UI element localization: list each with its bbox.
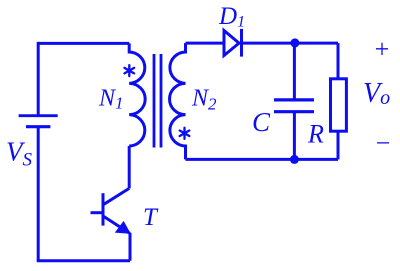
wire left vertical upper — [37, 42, 40, 116]
svg-text:VS: VS — [6, 137, 33, 171]
wire bottom horizontal — [37, 259, 130, 262]
wire left vertical lower — [37, 127, 40, 261]
transistor T base lead — [91, 211, 104, 214]
svg-text:−: − — [374, 129, 392, 158]
transistor T base bar — [102, 193, 105, 225]
svg-text:Vo: Vo — [363, 78, 390, 109]
junction node top — [290, 38, 299, 47]
winding N1 primary — [129, 43, 145, 146]
svg-text:C: C — [252, 107, 271, 137]
svg-text:+: + — [373, 35, 391, 64]
battery VS short plate — [26, 125, 50, 128]
transistor T collector diagonal — [103, 188, 129, 204]
wire collector riser — [128, 146, 131, 188]
transformer core — [154, 54, 161, 148]
resistor R body — [331, 79, 347, 131]
wire bottom rail — [186, 158, 339, 161]
svg-text:D1: D1 — [218, 3, 245, 31]
junction node bottom — [290, 155, 299, 164]
battery VS long plate — [19, 114, 58, 117]
transistor T emitter diagonal — [104, 217, 130, 234]
wire capacitor riser — [293, 43, 296, 100]
transistor T emitter arrow — [115, 221, 131, 234]
polarity dot (asterisk) N1 — [125, 65, 135, 76]
wire right branch top — [337, 43, 340, 79]
polarity dot (asterisk) N2 — [180, 128, 190, 139]
diode D1 cathode bar — [240, 29, 243, 57]
wire capacitor drop — [293, 112, 296, 160]
wire emitter drop — [129, 233, 132, 261]
capacitor C top plate — [274, 98, 314, 101]
winding N2 secondary — [170, 43, 186, 159]
wire diode to right corner — [242, 42, 339, 45]
svg-text:T: T — [143, 204, 159, 231]
wire top-left horizontal — [38, 42, 129, 45]
svg-text:N2: N2 — [191, 86, 217, 114]
wire top right to diode — [186, 42, 225, 45]
svg-text:N1: N1 — [98, 86, 124, 113]
capacitor C bottom plate — [274, 110, 314, 113]
svg-text:R: R — [307, 120, 324, 149]
wire right branch bottom — [337, 131, 340, 159]
diode D1 triangle — [224, 31, 239, 56]
